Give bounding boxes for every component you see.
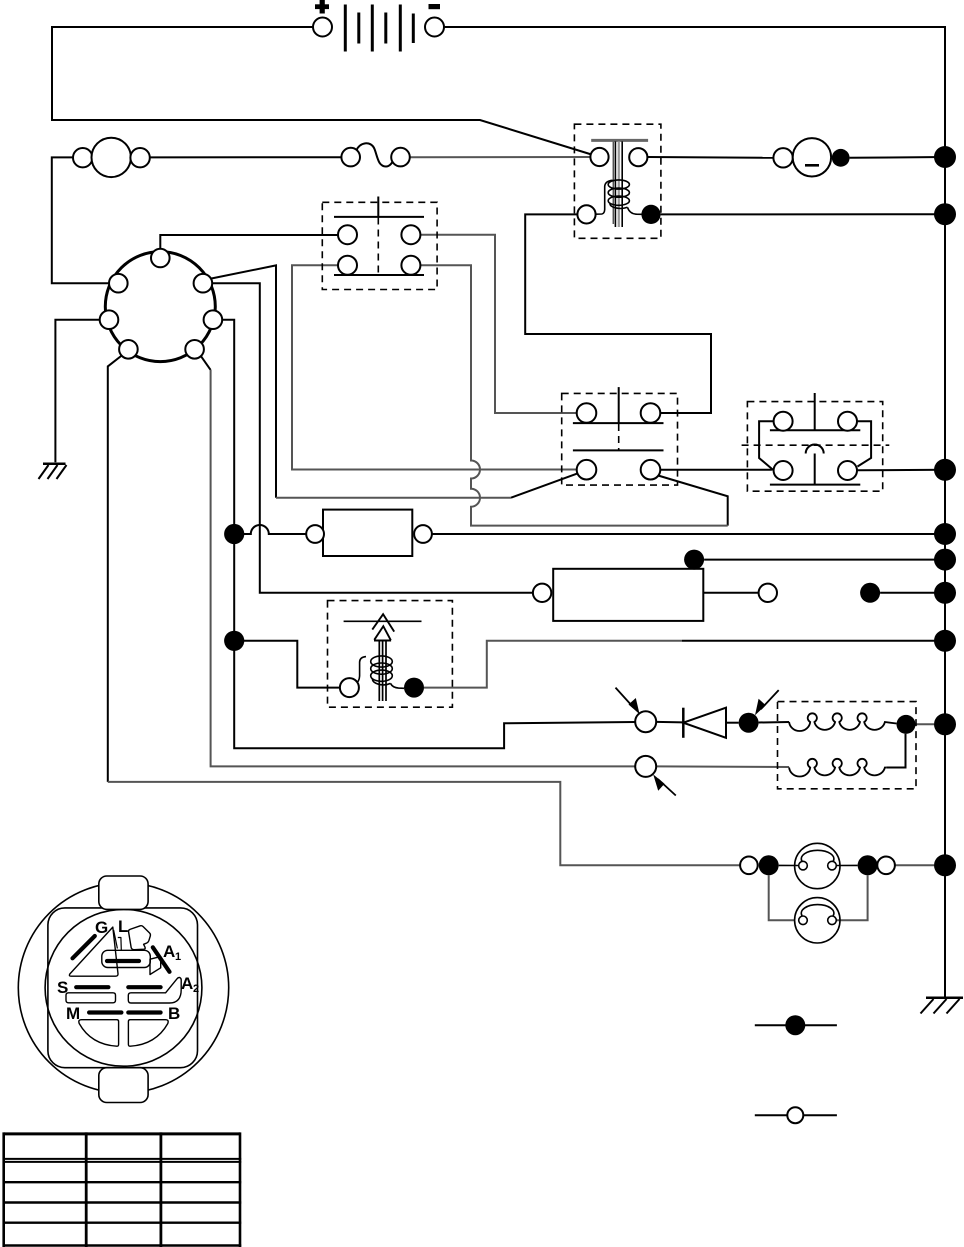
svg-text:M: M [66,1004,80,1023]
svg-text:G: G [95,918,108,937]
svg-text:2: 2 [193,983,199,995]
svg-text:S: S [57,978,68,997]
svg-text:A: A [163,942,175,961]
svg-text:A: A [181,974,193,993]
svg-text:1: 1 [175,951,181,963]
svg-text:L: L [118,917,128,936]
svg-text:B: B [168,1004,180,1023]
